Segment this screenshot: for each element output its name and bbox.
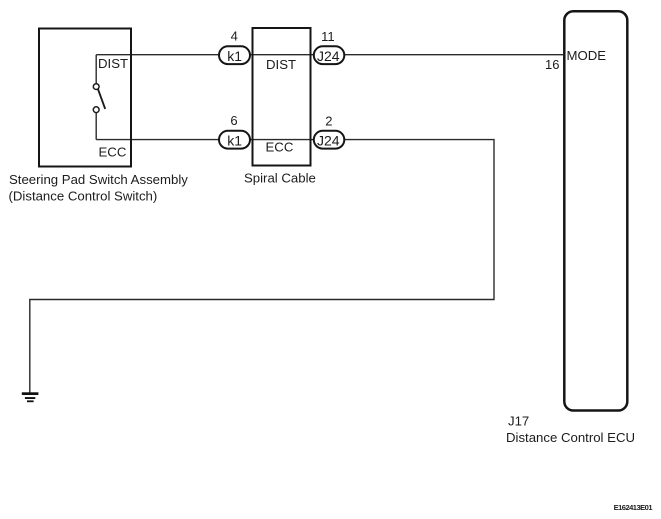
svg-text:DIST: DIST: [266, 57, 296, 72]
svg-text:6: 6: [230, 113, 237, 128]
svg-text:J17: J17: [508, 413, 529, 428]
svg-text:Steering Pad Switch Assembly: Steering Pad Switch Assembly: [9, 172, 188, 187]
svg-text:ECC: ECC: [266, 140, 294, 155]
svg-text:MODE: MODE: [567, 48, 607, 63]
svg-text:E162413E01: E162413E01: [614, 503, 653, 512]
svg-text:J24: J24: [317, 48, 340, 64]
svg-text:Distance Control ECU: Distance Control ECU: [506, 430, 635, 445]
svg-text:4: 4: [231, 29, 238, 44]
svg-text:2: 2: [325, 114, 332, 129]
svg-text:k1: k1: [227, 132, 242, 148]
svg-text:J24: J24: [317, 132, 340, 148]
svg-text:Spiral Cable: Spiral Cable: [244, 171, 316, 186]
svg-text:k1: k1: [227, 48, 242, 64]
svg-text:16: 16: [545, 57, 559, 72]
svg-text:ECC: ECC: [99, 144, 127, 159]
svg-text:(Distance Control Switch): (Distance Control Switch): [9, 189, 158, 204]
svg-text:DIST: DIST: [98, 56, 128, 71]
svg-text:11: 11: [321, 29, 335, 44]
